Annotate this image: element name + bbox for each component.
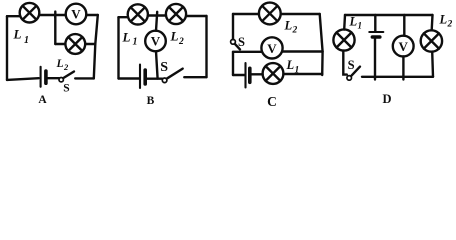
- wire: A left edge: [6, 16, 8, 80]
- wire: D voltmeter branch upper: [403, 15, 405, 36]
- svg-text:S: S: [348, 58, 355, 72]
- wire: A top middle segment: [39, 14, 65, 16]
- svg-text:V: V: [151, 34, 161, 49]
- wire: A bottom left segment: [7, 78, 39, 80]
- wire: C voltmeter branch right: [283, 50, 323, 52]
- wire: D right edge upper: [431, 15, 434, 30]
- wire: C left edge upper: [232, 14, 234, 39]
- wire: C right edge: [320, 14, 323, 75]
- wire: B right edge: [205, 16, 207, 77]
- svg-text:L: L: [122, 30, 131, 45]
- wire: A battery to switch: [48, 77, 60, 79]
- wire: A parallel branch vertical: [54, 15, 56, 44]
- lamp L1 (circuit D): [333, 29, 354, 50]
- svg-text:1: 1: [24, 35, 29, 46]
- lamp L1 (circuit C): [263, 63, 284, 84]
- label L2 (circuit D): [439, 13, 453, 30]
- wire: A switch to right corner: [75, 77, 94, 79]
- wire: B bottom left segment: [119, 77, 140, 79]
- wire: A parallel branch right horizontal: [85, 43, 95, 45]
- wire: A top left segment: [7, 15, 20, 17]
- lamp L2 (circuit D): [421, 30, 442, 51]
- wire: D voltmeter branch lower: [402, 57, 404, 80]
- switch S (circuit C): [231, 39, 240, 49]
- svg-text:S: S: [238, 35, 245, 49]
- wire: C left edge lower: [232, 52, 234, 75]
- node: junction of parallel branch (circuit A): [54, 12, 56, 18]
- wire: D left edge lower: [343, 51, 347, 75]
- battery (circuit B): [140, 65, 145, 89]
- wire: B branch top (junction to voltmeter): [156, 12, 157, 31]
- lamp L1 (circuit A): [20, 3, 40, 23]
- svg-text:C: C: [267, 94, 277, 109]
- svg-text:L: L: [439, 13, 448, 27]
- wire: B battery to switch: [147, 77, 162, 79]
- svg-text:V: V: [71, 7, 81, 22]
- wire: D battery branch upper: [374, 15, 376, 31]
- wire: D bottom wire: [362, 76, 433, 78]
- lamp L2 (circuit B): [166, 4, 186, 24]
- svg-text:L: L: [349, 15, 358, 29]
- svg-text:2: 2: [447, 20, 453, 30]
- svg-text:2: 2: [178, 37, 184, 47]
- label L1 (circuit D): [349, 15, 363, 31]
- svg-text:B: B: [147, 95, 155, 107]
- lamp L1 (circuit B): [128, 4, 148, 24]
- svg-text:L: L: [284, 19, 293, 33]
- svg-text:2: 2: [292, 26, 298, 36]
- svg-text:V: V: [399, 39, 409, 54]
- wire: C bottom left segment: [233, 74, 244, 76]
- wire: B switch to right corner: [184, 76, 206, 78]
- svg-text:1: 1: [358, 21, 363, 31]
- label L1 (circuit A): [13, 27, 30, 47]
- switch S (circuit A): [59, 72, 74, 82]
- wire: D battery branch lower: [374, 39, 376, 80]
- svg-text:S: S: [63, 83, 69, 95]
- wire: D right edge lower: [431, 52, 434, 77]
- battery (circuit A): [41, 67, 46, 87]
- wire: B branch bottom (voltmeter to bottom wire): [156, 51, 158, 78]
- svg-text:2: 2: [63, 62, 69, 72]
- label L2 (circuit C): [284, 19, 298, 36]
- wire: C battery to lamp: [252, 73, 263, 75]
- label L1 (circuit C): [286, 58, 300, 76]
- wire: B top right segment: [186, 15, 206, 17]
- lamp L2 (circuit A): [65, 34, 85, 54]
- wire: B left edge: [117, 17, 119, 78]
- svg-text:S: S: [160, 60, 168, 75]
- switch S (circuit B): [162, 69, 182, 83]
- svg-text:L: L: [286, 58, 295, 72]
- lamp L2 (circuit C): [259, 3, 281, 25]
- voltmeter V (circuit A): [66, 4, 87, 25]
- battery (circuit C): [246, 63, 250, 88]
- label L1 (circuit B): [122, 30, 138, 48]
- switch S (circuit D): [347, 67, 360, 81]
- wire: C top left segment: [233, 13, 259, 15]
- svg-text:L: L: [13, 27, 22, 42]
- voltmeter V (circuit C): [261, 37, 282, 58]
- wire: B top middle segment: [148, 14, 166, 16]
- wire: D top wire: [345, 14, 433, 16]
- wire: C top right segment: [281, 13, 320, 15]
- label L2 (circuit A): [56, 58, 70, 72]
- wire: A right edge: [94, 15, 98, 78]
- svg-text:A: A: [38, 94, 47, 106]
- wire: A top right segment: [86, 14, 98, 16]
- svg-text:L: L: [56, 58, 64, 70]
- wire: C voltmeter branch left: [233, 51, 261, 53]
- voltmeter V (circuit D): [393, 36, 414, 57]
- voltmeter V (circuit B): [145, 31, 166, 52]
- wire: B top left segment: [119, 16, 128, 18]
- wire: D left edge upper: [343, 15, 346, 30]
- svg-text:D: D: [382, 92, 391, 106]
- svg-text:1: 1: [133, 37, 138, 48]
- wire: A parallel branch left horizontal: [55, 43, 65, 45]
- svg-text:V: V: [267, 41, 277, 56]
- battery (circuit D): [369, 32, 383, 37]
- svg-text:L: L: [170, 29, 179, 44]
- label L2 (circuit B): [170, 29, 185, 48]
- wire: C lamp to right corner: [283, 73, 322, 75]
